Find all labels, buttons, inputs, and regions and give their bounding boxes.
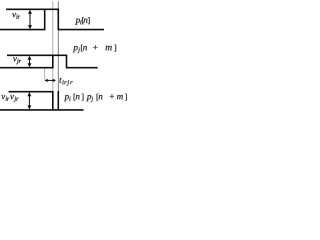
label v_jr: [13, 57, 21, 64]
v_ir dimension arrow: [28, 10, 32, 30]
label p_i[n]p_j[n+m]: [64, 94, 127, 102]
label p_i[n]: [75, 17, 89, 25]
t_irjr dimension arrow: [45, 79, 56, 82]
trace p_i[n]: baseline: [0, 29, 104, 31]
guide line B: p_j rising-edge vertical (light grey): [52, 1, 54, 91]
guide line A: p_i rising-edge short vertical above t-arrow: [44, 68, 46, 79]
trace p_i[n]: v_ir level reference line: [6, 8, 45, 10]
label v_ir: [12, 13, 20, 19]
trace product: pulse left and right edges: [53, 91, 59, 111]
trace p_j[n+m]: baseline: [0, 67, 98, 69]
trace product: zero-level reference line: [9, 91, 53, 93]
label p_j[n+m]: [73, 45, 116, 53]
v_ir*v_jr dimension arrow: [27, 92, 31, 109]
label t_irjr: [60, 78, 73, 86]
guide line C: p_i falling-edge vertical (dark grey): [57, 1, 59, 91]
label v_ir_v_jr: [1, 95, 18, 102]
trace p_j[n+m]: v_jr level reference line: [7, 54, 53, 56]
trace p_i[n]: pulse (rising edge, top, falling edge): [45, 9, 59, 31]
trace p_j[n+m]: pulse (rising edge, top, falling edge): [53, 55, 67, 69]
trace product: bottom level line: [0, 109, 84, 111]
v_jr dimension arrow: [28, 56, 32, 68]
